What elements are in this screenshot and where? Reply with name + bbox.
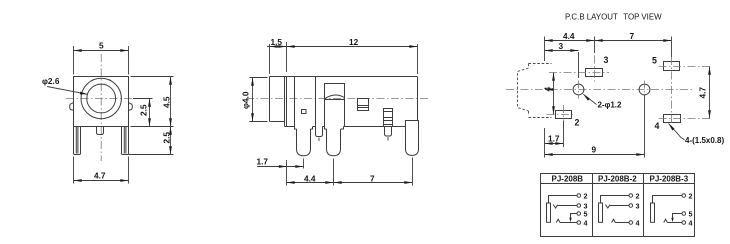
dimension 4.7 pcb vertical	[698, 67, 711, 119]
c1 terminal 4 circle	[577, 221, 581, 225]
leg A barbs	[295, 127, 313, 130]
table frame	[541, 174, 695, 237]
dimension 5 top	[74, 40, 129, 74]
pad 5 crosshair horizontal	[659, 66, 713, 68]
small square hole	[302, 110, 307, 114]
dimension 9 pcb	[545, 95, 645, 158]
c1 wire to terminal 2	[549, 196, 578, 204]
svg-text:3: 3	[559, 41, 564, 51]
dimension 4.5 right	[131, 77, 174, 127]
dimension 12 top	[287, 37, 418, 74]
svg-text:P.C.B LAYOUT: P.C.B LAYOUT	[565, 13, 618, 22]
c2 wire to terminal 3	[610, 205, 629, 207]
c3 sleeve	[651, 203, 655, 222]
front view vertical centerline	[100, 54, 102, 161]
c1 terminal 2 circle	[577, 194, 581, 198]
c1 wire to terminal 4	[560, 222, 577, 224]
svg-text:5: 5	[99, 40, 104, 50]
dimension 4.4 pcb	[545, 31, 595, 61]
svg-text:5: 5	[584, 210, 588, 219]
table header divider	[541, 183, 695, 185]
right side tab	[129, 103, 133, 111]
table column dividers	[593, 174, 644, 237]
c2 wire to terminal 4	[615, 222, 629, 224]
c3 wire to terminal 4	[667, 222, 682, 224]
dashed barrel outline	[518, 68, 529, 111]
small pin 2	[385, 127, 392, 137]
svg-text:4.5: 4.5	[162, 96, 172, 108]
pad 2 crosshairs	[547, 105, 576, 131]
dimension 1.5 top	[267, 37, 287, 74]
barrel bottom edge	[270, 121, 285, 123]
dimension 7 pcb	[595, 31, 672, 57]
body bottom segments	[285, 126, 406, 128]
c2 sleeve	[599, 203, 603, 222]
c2 terminal 4 circle	[629, 221, 633, 225]
dashed body outline top and bottom	[529, 64, 552, 118]
svg-text:4.4: 4.4	[304, 173, 316, 183]
svg-text:4: 4	[543, 87, 553, 92]
svg-text:5: 5	[652, 56, 657, 66]
front view body square	[74, 77, 129, 127]
pcb horizontal centerline	[506, 89, 693, 91]
plunger spring arc	[325, 95, 345, 99]
front view inner circle phi2.6	[87, 84, 116, 113]
c2 tip contact v	[605, 205, 610, 209]
contact box	[358, 99, 369, 111]
svg-text:2: 2	[689, 191, 693, 200]
c1 wire to terminal 3	[558, 205, 577, 207]
svg-text:5: 5	[689, 210, 693, 219]
leg B barbs	[325, 127, 345, 130]
hole 1 phi1.2	[573, 84, 584, 95]
small pin 1	[316, 127, 323, 137]
body front edge	[286, 77, 288, 127]
front center pin	[97, 127, 104, 135]
svg-text:4: 4	[655, 121, 660, 131]
dashed body outline front edge	[528, 64, 530, 116]
svg-text:1.7: 1.7	[257, 156, 269, 166]
front left leg	[74, 127, 81, 155]
side view body top edge	[270, 76, 418, 78]
svg-text:4.4: 4.4	[563, 31, 575, 41]
c3 wire to terminal 2	[653, 196, 683, 204]
leg B u-shape	[327, 129, 342, 156]
svg-text:4.7: 4.7	[698, 87, 708, 99]
dimension 2.5 center-to-bottom	[133, 99, 153, 127]
c2 wire to terminal 2	[601, 196, 630, 204]
svg-text:4: 4	[584, 219, 588, 228]
pad 2	[556, 111, 572, 119]
front view outer circle	[81, 78, 121, 118]
dimension 4.4 side	[287, 159, 334, 186]
svg-text:2: 2	[584, 191, 588, 200]
hole 1 vertical crosshair	[578, 81, 580, 99]
svg-text:3: 3	[636, 201, 640, 210]
svg-text:PJ-208B: PJ-208B	[552, 175, 584, 184]
segmented pin dividers	[384, 112, 393, 125]
c3 terminal 2 circle	[682, 194, 686, 198]
svg-text:4: 4	[636, 219, 640, 228]
c1 terminal 3 circle	[577, 204, 581, 208]
left side tab	[70, 103, 74, 111]
dimension 1.7 pcb	[545, 121, 564, 147]
dimension 4.7 bottom	[74, 157, 129, 184]
svg-text:2.5: 2.5	[139, 104, 149, 116]
barrel tip end line	[284, 77, 286, 127]
label 2-phi1.2 with leader	[583, 94, 622, 109]
c3 switch contact peak	[664, 219, 668, 222]
label 4-(1.5x0.8) with leader	[669, 124, 725, 146]
svg-text:φ4.0: φ4.0	[241, 91, 251, 109]
svg-text:PJ-208B-3: PJ-208B-3	[650, 175, 689, 184]
c3 wire 5 with drop arrow	[673, 214, 683, 220]
centerline datum arrow	[546, 88, 554, 91]
svg-text:2.5: 2.5	[162, 132, 172, 144]
svg-text:4: 4	[689, 219, 693, 228]
front left leg inner lines	[76, 127, 78, 154]
front right leg	[122, 127, 129, 155]
pin 1 stub line	[318, 138, 320, 142]
dimension 3 pcb	[545, 41, 579, 78]
pads 4-5 vertical crosshair	[671, 57, 673, 127]
svg-text:9: 9	[592, 144, 597, 154]
segmented switch pin	[384, 109, 393, 127]
svg-text:2-φ1.2: 2-φ1.2	[598, 100, 623, 109]
leg C rounded rect	[406, 121, 419, 156]
c2 terminal 2 circle	[629, 194, 633, 198]
hole 2 phi1.2	[639, 84, 650, 95]
svg-text:4.7: 4.7	[94, 170, 106, 180]
pin 2 stub line	[387, 137, 389, 141]
c2 switch contact peak	[612, 219, 616, 222]
svg-text:TOP VIEW: TOP VIEW	[623, 13, 662, 22]
pad 4 crosshair horizontal	[659, 118, 713, 120]
svg-text:2: 2	[575, 118, 580, 128]
c1 terminal 5 circle	[577, 212, 581, 216]
svg-text:7: 7	[370, 173, 375, 183]
contact box inner lines	[358, 106, 369, 108]
plunger arc chord	[325, 99, 345, 101]
c3 terminal 4 circle	[682, 221, 686, 225]
svg-text:1.7: 1.7	[548, 134, 560, 144]
c1 tip contact v	[553, 205, 558, 209]
pad 3	[586, 69, 603, 77]
svg-text:12: 12	[349, 37, 359, 47]
c1 switch contact peak	[556, 219, 560, 222]
dimension phi4.0 left	[241, 78, 268, 122]
barrel left edge	[269, 77, 271, 122]
svg-text:PJ-208B-2: PJ-208B-2	[598, 175, 637, 184]
hole 2 vertical crosshair	[644, 81, 646, 95]
c3 terminal 5 circle	[682, 212, 686, 216]
c1 wire 5 with drop arrow	[571, 214, 578, 220]
label phi2.6 with leader	[42, 76, 88, 95]
front right leg inner lines	[124, 127, 126, 154]
svg-text:φ2.6: φ2.6	[42, 76, 60, 86]
dimension 2.5 lower right	[129, 127, 174, 155]
pad 5	[664, 62, 680, 71]
internal seam line 2	[315, 77, 317, 127]
dimension 1.7 side	[257, 156, 304, 168]
c1 sleeve	[547, 203, 551, 222]
switch plunger	[325, 84, 345, 127]
svg-text:1.5: 1.5	[271, 37, 283, 47]
svg-text:7: 7	[630, 31, 635, 41]
body right edge	[417, 77, 419, 121]
leg A u-shape	[297, 129, 311, 156]
pad 4	[664, 115, 681, 123]
svg-text:4-(1.5x0.8): 4-(1.5x0.8)	[685, 136, 724, 145]
dimension 4 pcb vertical	[543, 73, 555, 115]
c2 terminal 3 circle	[629, 204, 633, 208]
internal seam line 1	[294, 77, 296, 127]
pad 3 crosshairs	[549, 56, 609, 82]
dimension 7 side	[334, 158, 413, 186]
front view horizontal centerline	[66, 98, 137, 100]
side view horizontal centerline	[246, 98, 430, 100]
svg-text:3: 3	[604, 55, 609, 65]
svg-text:2: 2	[636, 191, 640, 200]
